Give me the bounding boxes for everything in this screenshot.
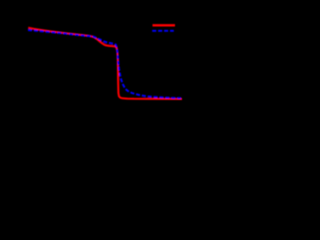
red solid curve xyxy=(28,28,182,99)
legend red solid sample xyxy=(153,24,176,26)
legend blue dashed sample xyxy=(152,30,174,32)
blue dashed curve xyxy=(28,30,181,98)
